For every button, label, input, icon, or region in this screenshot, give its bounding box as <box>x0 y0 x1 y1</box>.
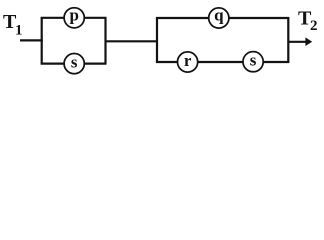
switch s (first block) <box>64 53 84 74</box>
node A: left vertical junction of first parallel block <box>41 18 43 64</box>
switch s (second block) <box>243 51 263 72</box>
wire node C to switch q <box>156 17 208 19</box>
wire from terminal T1 to node A <box>20 39 43 41</box>
wire node C to switch r <box>156 61 177 63</box>
terminal T1 <box>3 11 23 39</box>
wire switch r to switch s2 <box>198 61 243 63</box>
wire switch s2 to node D <box>264 61 290 63</box>
node D: right vertical junction of second parallel block <box>287 18 289 62</box>
svg-text:q: q <box>214 6 224 25</box>
switch r <box>178 51 198 72</box>
svg-text:2: 2 <box>310 18 318 34</box>
arrowhead at terminal T2 <box>305 37 312 46</box>
svg-text:p: p <box>69 5 78 24</box>
wire node A to switch p <box>41 17 64 19</box>
svg-text:1: 1 <box>15 23 23 39</box>
svg-text:s: s <box>71 53 78 72</box>
node B: right vertical junction of first parallel block <box>104 18 106 64</box>
switch q <box>209 6 229 29</box>
terminal T2 <box>298 8 318 35</box>
svg-text:r: r <box>184 51 192 70</box>
node C: left vertical junction of second parallel block <box>156 18 158 62</box>
svg-text:s: s <box>250 51 257 70</box>
wire node A to switch s1 <box>41 62 64 64</box>
wire node D toward terminal T2 <box>288 41 306 43</box>
wire switch p to node B <box>85 17 107 19</box>
wire switch q to node D <box>229 17 289 19</box>
wire switch s1 to node B <box>85 62 107 64</box>
wire node B to node C <box>106 40 159 42</box>
switch p <box>64 5 84 28</box>
